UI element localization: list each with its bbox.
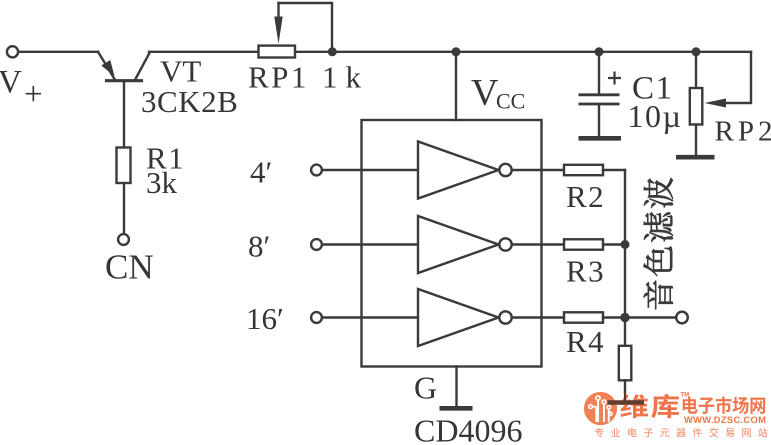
svg-text:1k: 1k	[322, 60, 369, 95]
ground bar G	[440, 406, 473, 411]
svg-text:R4: R4	[566, 324, 605, 359]
RP1 feedback loop wire	[279, 3, 333, 52]
svg-text:8′: 8′	[248, 229, 270, 264]
terminal V+ input	[7, 46, 18, 57]
label V+	[0, 65, 43, 113]
resistor R5 load	[619, 318, 632, 401]
svg-text:4′: 4′	[250, 155, 272, 190]
svg-text:10µ: 10µ	[628, 98, 683, 134]
ground bar R5	[608, 400, 645, 405]
wire inverter U13 output	[512, 316, 564, 318]
wire base lead down to R1	[123, 81, 125, 148]
wire inverter U12 output	[512, 243, 564, 245]
svg-text:V: V	[471, 72, 499, 114]
svg-text:TM: TM	[681, 393, 690, 399]
wire bus to output terminal	[625, 316, 676, 318]
inverter U13 bubble	[499, 311, 511, 323]
svg-text:RP1: RP1	[248, 60, 309, 95]
terminal input 16'	[311, 312, 322, 323]
RP1 wiper arrow	[274, 3, 282, 44]
svg-text:V: V	[0, 65, 22, 101]
svg-text:3CK2B: 3CK2B	[141, 84, 238, 119]
node junction R3 bus	[621, 240, 630, 249]
wire RP1 to right corner (top rail)	[295, 51, 751, 53]
wire R2 to bus	[603, 169, 625, 171]
resistor R3	[564, 239, 603, 249]
wire V+ to transistor emitter	[19, 51, 98, 53]
node junction C1	[595, 47, 604, 56]
svg-text:CC: CC	[496, 89, 525, 114]
resistor R2	[564, 165, 603, 175]
label VCC	[471, 72, 525, 114]
potentiometer RP1 body	[259, 46, 296, 58]
watermark logo circle	[584, 392, 617, 425]
svg-text:16′: 16′	[246, 301, 284, 336]
inverter U11 bubble	[499, 164, 511, 176]
wire VCC down to IC	[455, 52, 457, 120]
IC U1 CD4096 box	[362, 120, 542, 367]
svg-text:R2: R2	[566, 179, 605, 214]
svg-text:+: +	[24, 77, 43, 113]
wire inverter U11 output	[512, 169, 564, 171]
node junction VCC	[452, 47, 461, 56]
wire G to ground	[455, 367, 457, 407]
wire R1 to CN terminal	[123, 183, 125, 234]
wire input 16' to inverter	[322, 316, 418, 318]
node junction R4 bus output	[620, 313, 629, 322]
svg-text:CD4096: CD4096	[414, 413, 522, 445]
RP2 wiper arrow from rail	[705, 52, 752, 108]
wire collector to RP1	[149, 51, 259, 53]
capacitor C1	[579, 52, 620, 136]
transistor VT collector	[136, 52, 151, 79]
transistor Q VT emitter with arrow	[98, 52, 115, 79]
inverter U12 triangle	[418, 216, 499, 273]
potentiometer RP2 body	[690, 52, 703, 155]
resistor R4	[564, 312, 603, 322]
wire R3 to bus	[603, 243, 625, 245]
resistor R1	[117, 148, 131, 184]
wire input 4' to inverter	[322, 169, 418, 171]
terminal output	[676, 312, 688, 324]
svg-text:R3: R3	[566, 254, 605, 289]
watermark text 电子市场网	[683, 396, 765, 414]
svg-text:WWW.DZSC.COM: WWW.DZSC.COM	[684, 415, 766, 425]
ground bar C1	[579, 136, 622, 141]
wire mixing bus vertical	[624, 170, 626, 318]
wire input 8' to inverter	[322, 243, 418, 245]
wire R4 to bus	[603, 316, 625, 318]
svg-text:RP2: RP2	[715, 116, 771, 148]
C1 polarity plus	[608, 72, 621, 85]
terminal input 8'	[311, 239, 322, 250]
terminal CN	[118, 234, 129, 245]
inverter U13 triangle	[418, 289, 499, 346]
watermark slogan 专业电子元器件交易网站	[595, 428, 768, 437]
node junction RP1 loop	[328, 47, 337, 56]
label 音色滤波 vertical	[643, 178, 673, 309]
svg-text:3k: 3k	[146, 165, 178, 200]
svg-text:CN: CN	[105, 248, 154, 287]
inverter U12 bubble	[499, 238, 511, 250]
transistor VT base bar	[107, 79, 142, 82]
ground bar RP2	[676, 155, 715, 160]
terminal input 4'	[311, 165, 322, 176]
svg-text:G: G	[414, 370, 437, 406]
node junction RP2	[692, 47, 701, 56]
watermark brand text 维库	[620, 394, 679, 418]
inverter U11 triangle	[418, 142, 499, 199]
